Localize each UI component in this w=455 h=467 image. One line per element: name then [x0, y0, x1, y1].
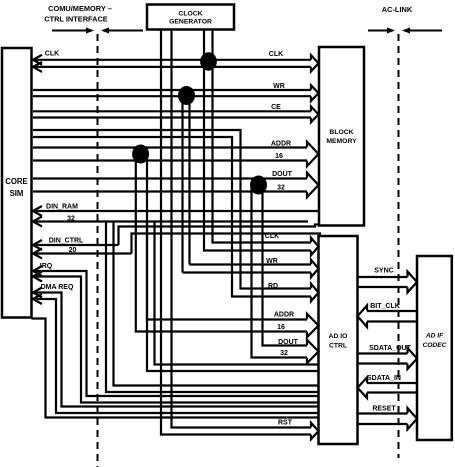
junction dot J1 (clock to CLK line): [200, 52, 217, 70]
svg-text:CLK: CLK: [265, 233, 279, 240]
svg-text:16: 16: [275, 153, 283, 160]
wire IRQ (from AD IO CTRL via bottom run to CORE SIM): [33, 266, 319, 403]
wire WR drop (J2 to WR row): [183, 99, 190, 273]
wire DOUT drop (J4 to AD IO CTRL DOUT): [252, 188, 319, 363]
svg-text:CLK: CLK: [45, 51, 59, 58]
svg-text:DIN_RAM: DIN_RAM: [46, 204, 78, 211]
label COMU/MEMORY - CTRL INTERFACE: [44, 4, 112, 24]
svg-text:DIN_CTRL: DIN_CTRL: [49, 237, 84, 244]
svg-text:32: 32: [280, 350, 288, 357]
svg-text:CTRL INTERFACE: CTRL INTERFACE: [44, 15, 108, 24]
block AD IO CTRL: [319, 236, 358, 444]
svg-text:CORE: CORE: [5, 177, 28, 186]
wire ADDR drop (J3 to AD IO CTRL ADDR): [136, 158, 319, 337]
wire ADDR (CORE SIM to BLOCK MEMORY, 16-bit bus): [33, 142, 319, 166]
label SDATA_OUT: [369, 345, 411, 352]
svg-text:SDATA_IN: SDATA_IN: [367, 375, 401, 382]
wire SYNC (AD IO CTRL to CODEC): [357, 272, 417, 293]
svg-text:COMU/MEMORY –: COMU/MEMORY –: [48, 4, 112, 13]
wire CLK (CORE SIM to BLOCK MEMORY): [33, 55, 319, 72]
wire SDATA_OUT (AD IO CTRL to CODEC): [357, 348, 417, 369]
svg-text:CE: CE: [271, 104, 281, 111]
label CE: [271, 104, 281, 111]
block BLOCK MEMORY: [319, 47, 364, 226]
label DIN_RAM 32: [46, 204, 78, 223]
label DMA REQ: [41, 284, 74, 291]
svg-text:IRQ: IRQ: [40, 263, 53, 270]
label BIT_CLK: [370, 303, 400, 310]
block CLOCK GENERATOR: [147, 5, 234, 30]
label RESET: [372, 406, 396, 413]
svg-text:DOUT: DOUT: [278, 339, 299, 346]
label SYNC: [374, 268, 393, 275]
wire DOUT (CORE SIM to BLOCK MEMORY, 32-bit bus): [33, 173, 319, 197]
label CLK (left, at CORE SIM): [45, 51, 59, 58]
svg-text:RESET: RESET: [372, 406, 396, 413]
label DOUT 32 (top): [272, 171, 293, 192]
block AD IF CODEC: [417, 256, 452, 440]
wire DMA REQ (from AD IO CTRL via bottom run to CORE SIM): [33, 288, 319, 414]
svg-text:WR: WR: [273, 83, 285, 90]
svg-text:BLOCK: BLOCK: [329, 129, 353, 136]
wire WR row into AD IO CTRL: [183, 260, 319, 278]
wire BIT_CLK (CODEC to AD IO CTRL): [358, 305, 418, 327]
svg-text:20: 20: [69, 247, 77, 254]
label WR (AD IO CTRL): [266, 258, 278, 265]
label RD (AD IO CTRL): [268, 283, 278, 290]
label ADDR 16 (AD IO CTRL): [274, 312, 294, 332]
wire SDATA_IN (CODEC to AD IO CTRL): [358, 377, 418, 398]
junction dot J3 (ADDR to AD IO CTRL ADDR drop): [132, 145, 149, 164]
label AC-LINK: [382, 5, 413, 14]
svg-text:BIT_CLK: BIT_CLK: [370, 303, 400, 310]
junction dot J2 (WR line to AD IO CTRL WR drop): [178, 86, 195, 105]
wire drop from DIN_RAM to bottom run 3: [106, 222, 319, 393]
label CLK (top): [269, 51, 283, 58]
svg-text:DMA REQ: DMA REQ: [41, 284, 74, 291]
svg-text:32: 32: [277, 185, 285, 192]
label ADDR 16 (top): [271, 141, 291, 161]
svg-text:CTRL: CTRL: [329, 343, 347, 350]
svg-text:ADDR: ADDR: [271, 141, 291, 148]
svg-text:AD IF: AD IF: [425, 333, 444, 340]
svg-text:AD IO: AD IO: [329, 333, 348, 340]
label DIN_CTRL 20: [49, 237, 84, 254]
wire WR (CORE SIM to BLOCK MEMORY): [33, 85, 319, 101]
wire CE (CORE SIM to BLOCK MEMORY): [33, 107, 319, 123]
wire clock generator right output (to AD IO CTRL CLK): [204, 30, 319, 256]
wire from CORE SIM bottom to AD IO CTRL (single): [32, 319, 319, 418]
wire DIN_RAM (BLOCK MEMORY to CORE SIM, 32-bit bus): [33, 206, 319, 227]
svg-text:DOUT: DOUT: [272, 171, 293, 178]
svg-text:32: 32: [67, 216, 75, 223]
svg-text:CLOCK: CLOCK: [178, 11, 202, 18]
svg-text:WR: WR: [266, 258, 278, 265]
dimension line at COMU boundary: [52, 28, 143, 34]
wire DIN_CTRL (from riser to CORE SIM, 20-bit bus): [33, 240, 132, 259]
svg-text:SIM: SIM: [10, 189, 24, 198]
svg-text:SDATA_OUT: SDATA_OUT: [369, 345, 411, 352]
svg-text:SYNC: SYNC: [374, 268, 393, 275]
label WR (top): [273, 83, 285, 90]
label IRQ: [40, 263, 53, 270]
wire riser DIN_CTRL to band between BLOCK MEMORY and AD IO CTRL: [119, 225, 321, 254]
wire RD (CORE SIM to AD IO CTRL): [33, 130, 319, 301]
label CLK (AD IO CTRL): [265, 233, 279, 240]
dimension line at AC-LINK boundary: [368, 28, 442, 34]
wire drop from DIN_RAM to bottom run 1: [147, 222, 319, 372]
block CORE SIM: [2, 48, 32, 318]
svg-text:16: 16: [277, 324, 285, 331]
label RST: [278, 420, 293, 427]
junction dot J4 (DOUT to AD IO CTRL DOUT drop): [250, 176, 267, 195]
dashed boundary AC-LINK (vertical): [398, 34, 400, 458]
label DOUT 32 (AD IO CTRL): [278, 339, 299, 357]
wire RESET (AD IO CTRL to CODEC): [357, 408, 417, 429]
dashed boundary COMU/MEMORY-CTRL INTERFACE (vertical): [97, 34, 99, 467]
label SDATA_IN: [367, 375, 401, 382]
svg-text:CODEC: CODEC: [423, 342, 447, 349]
svg-text:RD: RD: [268, 283, 278, 290]
svg-text:MEMORY: MEMORY: [326, 138, 357, 145]
svg-text:RST: RST: [278, 420, 293, 427]
svg-text:AC-LINK: AC-LINK: [382, 5, 413, 14]
svg-text:ADDR: ADDR: [274, 312, 294, 319]
svg-text:CLK: CLK: [269, 51, 283, 58]
svg-text:GENERATOR: GENERATOR: [169, 19, 212, 26]
wire clock generator left output (down to RST row): [161, 30, 319, 440]
